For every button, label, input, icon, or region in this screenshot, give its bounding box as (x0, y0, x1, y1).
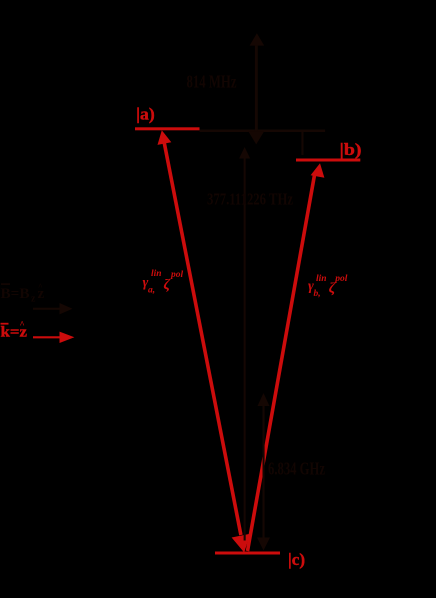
svg-text:|a): |a) (136, 105, 155, 124)
svg-text:pol: pol (170, 270, 184, 280)
svg-text:z: z (31, 294, 36, 305)
svg-text:|c): |c) (288, 550, 305, 569)
svg-text:377.111226 THz: 377.111226 THz (207, 190, 293, 209)
svg-text:lin: lin (151, 269, 162, 279)
svg-text:b,: b, (314, 289, 321, 299)
svg-text:^: ^ (38, 282, 43, 291)
svg-text:814 MHz: 814 MHz (187, 72, 237, 92)
svg-text:pol: pol (334, 274, 348, 284)
svg-text:6.834 GHz: 6.834 GHz (268, 459, 325, 479)
svg-text:lin: lin (316, 274, 327, 284)
svg-text:B=B: B=B (1, 286, 30, 302)
svg-text:^: ^ (20, 320, 25, 330)
svg-text:|b): |b) (340, 140, 362, 159)
svg-text:a,: a, (148, 286, 155, 296)
